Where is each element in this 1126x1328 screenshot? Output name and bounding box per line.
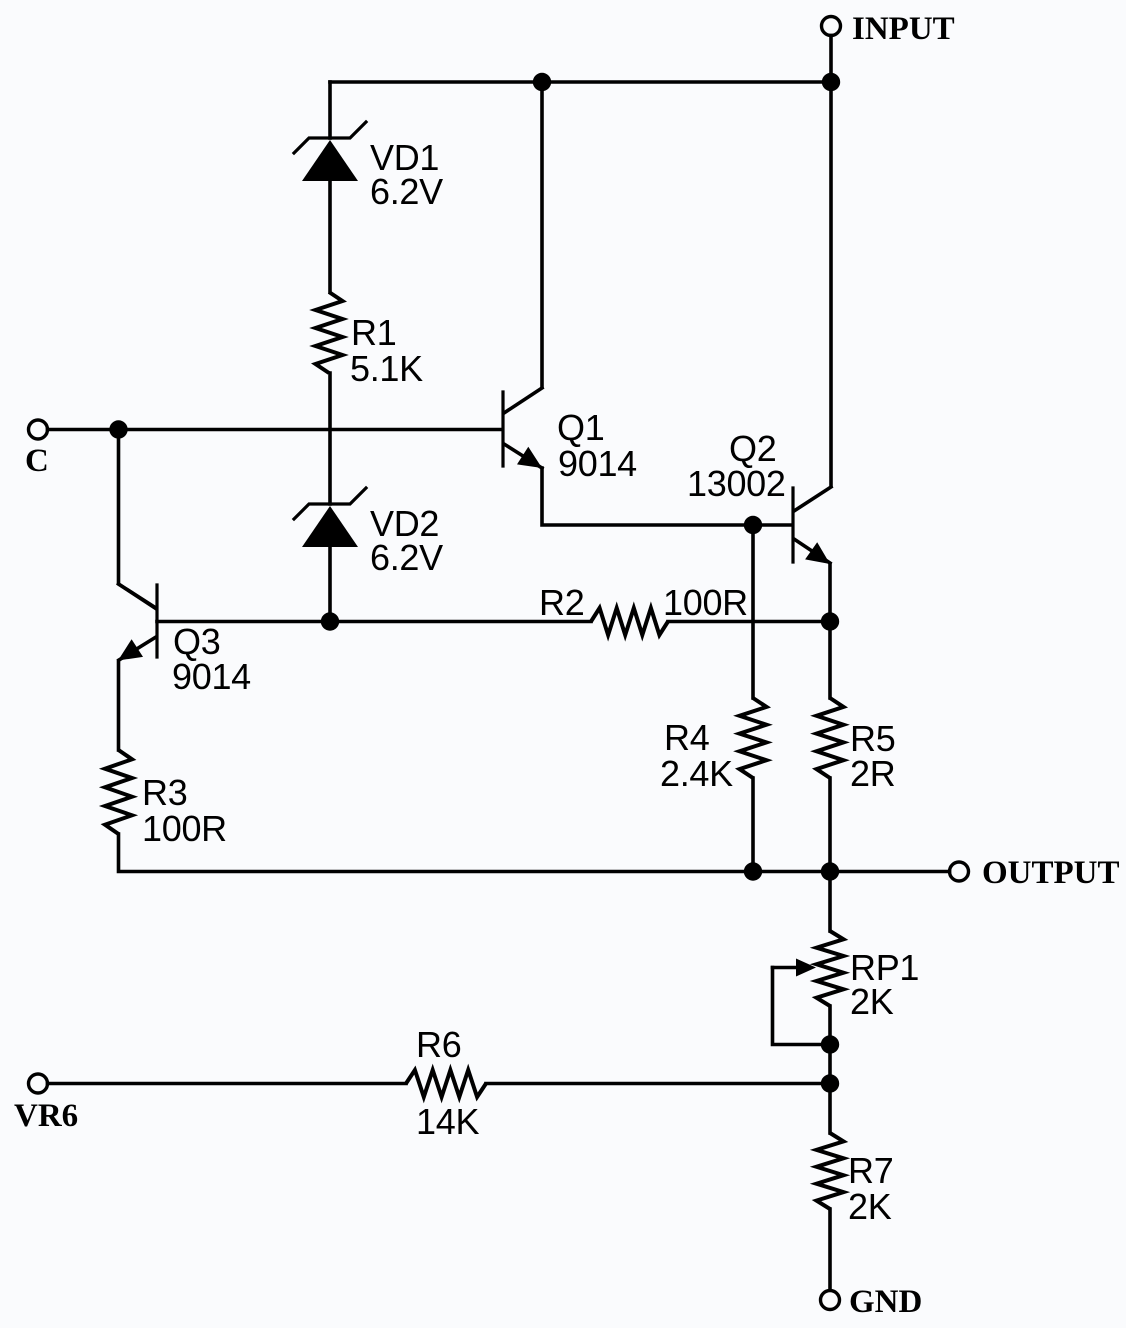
resistor R3 100R: [105, 750, 227, 849]
transistor Q1 9014: [503, 388, 637, 484]
svg-text:6.2V: 6.2V: [370, 537, 443, 578]
potentiometer RP1 2K: [773, 931, 920, 1045]
resistor R1 5.1K: [316, 292, 424, 389]
svg-text:6.2V: 6.2V: [370, 171, 443, 212]
svg-text:R4: R4: [664, 717, 709, 758]
svg-text:14K: 14K: [416, 1101, 479, 1142]
wire VD1 to R1: [328, 180, 332, 292]
wire output rail to RP1: [828, 872, 832, 932]
resistor R6 14K: [406, 1024, 486, 1142]
junction R5 / output rail: [821, 862, 839, 880]
wire Q3 emitter to R3: [117, 661, 121, 750]
svg-text:100R: 100R: [663, 582, 748, 623]
svg-text:9014: 9014: [558, 443, 637, 484]
junction top rail / Q1 collector: [533, 73, 551, 91]
svg-text:2K: 2K: [848, 1186, 892, 1227]
wire R6 to node: [486, 1082, 830, 1086]
svg-text:5.1K: 5.1K: [350, 348, 423, 389]
svg-text:INPUT: INPUT: [852, 11, 955, 47]
resistor R2 100R: [539, 582, 748, 635]
svg-text:GND: GND: [849, 1284, 922, 1320]
svg-text:2K: 2K: [850, 981, 894, 1022]
svg-text:2R: 2R: [850, 753, 895, 794]
wire Q2 emitter down to node: [828, 564, 832, 698]
zener diode VD2 6.2V: [294, 488, 443, 578]
svg-text:R3: R3: [142, 772, 187, 813]
svg-text:VR6: VR6: [14, 1098, 78, 1134]
svg-text:R2: R2: [539, 582, 584, 623]
transistor Q3 9014: [118, 584, 251, 697]
resistor R5 2R: [817, 698, 896, 794]
junction Q1 emitter / Q2 base: [744, 516, 762, 534]
wire INPUT vertical to Q2 collector: [829, 36, 833, 487]
junction R6 / R7 node: [821, 1074, 839, 1092]
terminal C: [25, 420, 49, 479]
svg-text:R6: R6: [416, 1024, 461, 1065]
wire top horizontal: [330, 80, 831, 84]
wire R7 to GND: [828, 1209, 832, 1290]
wire R2 right to node: [668, 620, 830, 624]
zener diode VD1 6.2V: [294, 122, 443, 212]
svg-text:C: C: [25, 443, 49, 479]
wire Q1 emitter to Q2 base: [542, 468, 792, 525]
resistor R7 2K: [817, 1133, 894, 1227]
wire Q1 collector vertical: [540, 82, 544, 387]
terminal INPUT: [822, 11, 955, 47]
junction C rail / Q3 branch: [109, 420, 127, 438]
svg-text:2.4K: 2.4K: [660, 753, 733, 794]
wire R3 to output rail: [119, 834, 950, 872]
wire VD2 to rail: [328, 546, 332, 622]
wire C node down to Q3 collector: [119, 430, 156, 609]
wire RP1 to R6 node: [828, 1006, 832, 1084]
wire VD1 top: [328, 82, 332, 138]
transistor Q2 13002: [687, 428, 831, 564]
wire C to Q1 base: [48, 428, 502, 432]
resistor R4 2.4K: [660, 698, 767, 794]
wire R5 to output rail: [828, 778, 832, 872]
junction Q2 emitter / R2 / R5: [821, 612, 839, 630]
svg-text:R7: R7: [848, 1150, 893, 1191]
wire R6 node to R7: [828, 1084, 832, 1134]
wire VR6 to R6: [48, 1082, 407, 1086]
svg-text:R1: R1: [351, 312, 396, 353]
terminal OUTPUT: [950, 855, 1120, 891]
svg-text:Q1: Q1: [557, 407, 604, 448]
svg-text:OUTPUT: OUTPUT: [982, 855, 1120, 891]
wire R1 to VD2: [328, 373, 332, 504]
svg-text:9014: 9014: [172, 656, 251, 697]
wire mid rail Q3 base to R2: [157, 620, 591, 624]
junction top rail / INPUT: [822, 73, 840, 91]
junction RP1 wiper tap: [821, 1035, 839, 1053]
svg-text:100R: 100R: [142, 808, 227, 849]
junction R4 / output rail: [744, 862, 762, 880]
wire Q2 base node down to R4: [751, 525, 755, 698]
terminal GND: [821, 1284, 923, 1320]
svg-text:13002: 13002: [687, 463, 786, 504]
wire R4 to output rail: [751, 778, 755, 872]
terminal VR6: [14, 1074, 78, 1134]
junction VD2 / mid rail: [321, 612, 339, 630]
